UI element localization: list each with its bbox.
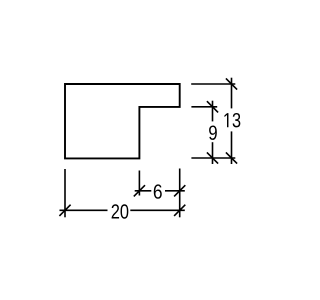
moulding profile outline (stepped cross-section) bbox=[65, 84, 180, 158]
dimension line 9, lower segment bbox=[212, 142, 214, 164]
label 20 bbox=[112, 204, 129, 218]
extension line, bottom left (from profile left edge) bbox=[64, 169, 66, 217]
tick, right of dim 20 bbox=[174, 205, 185, 216]
tick, left of dim 6 bbox=[134, 185, 145, 196]
tick, bottom of dim 9 bbox=[207, 152, 218, 163]
extension line, top right (from profile top edge) bbox=[191, 83, 235, 85]
label 6 bbox=[154, 184, 162, 198]
tick, right of dim 6 bbox=[174, 185, 185, 196]
dimension line 20, left segment bbox=[60, 209, 108, 211]
dimension line 20, right segment bbox=[130, 209, 185, 211]
dimension line 13, lower segment bbox=[231, 131, 233, 164]
label 13 bbox=[224, 113, 240, 127]
extension line, bottom right (from profile right edge) bbox=[179, 169, 181, 218]
extension line, bottom right (from profile bottom edge) bbox=[191, 157, 235, 159]
tick, top of dim 13 bbox=[226, 78, 237, 89]
extension line, bottom step (from profile step edge) bbox=[138, 171, 140, 196]
tick, left of dim 20 bbox=[59, 205, 70, 216]
dimension line 13, upper segment bbox=[231, 78, 233, 109]
label 9 bbox=[209, 125, 217, 139]
dimension line 6, left segment bbox=[135, 190, 152, 192]
extension line, middle right (from step edge) bbox=[191, 106, 217, 108]
tick, bottom of dim 13 bbox=[226, 152, 237, 163]
dimension line 9, upper segment bbox=[212, 101, 214, 122]
tick, top of dim 9 bbox=[207, 101, 218, 112]
dimension line 6, right segment bbox=[165, 190, 185, 192]
